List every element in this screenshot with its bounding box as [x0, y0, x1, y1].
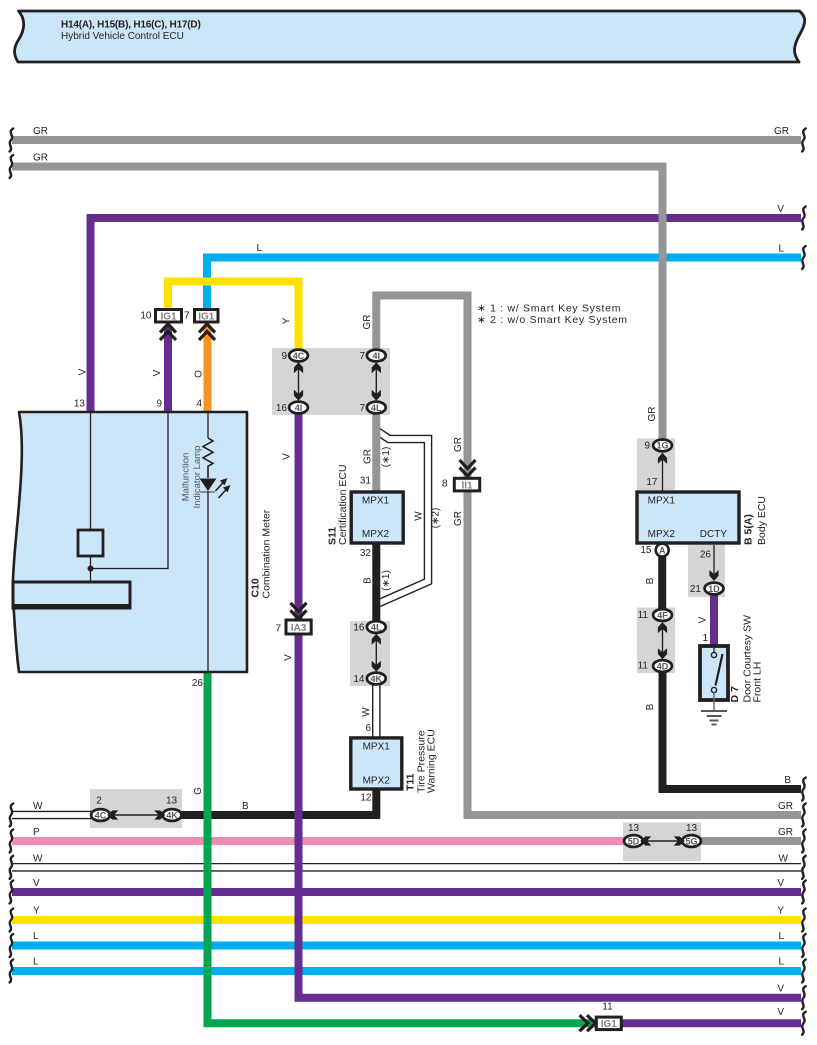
meter internal line pin 4 to resistor — [207, 412, 209, 438]
ground symbol — [701, 711, 727, 725]
double arrow 4C-4I — [298, 366, 300, 397]
connector oval 4C pin 2 bottom — [91, 809, 110, 821]
B5(A) body ECU box — [637, 492, 739, 543]
wire Y yellow IG1 to 4C — [168, 282, 299, 351]
connector oval 4C pin 9 — [289, 350, 308, 362]
connector shade block 4L/4K — [350, 621, 390, 686]
svg-text:B: B — [645, 577, 656, 584]
LED emission arrows — [216, 482, 225, 492]
svg-text:IG1: IG1 — [160, 311, 177, 322]
svg-text:7: 7 — [275, 624, 281, 635]
connector oval 4L pin 7 — [367, 402, 386, 414]
svg-text:H14(A), H15(B), H16(C), H17(D): H14(A), H15(B), H16(C), H17(D) — [61, 20, 201, 31]
svg-text:MPX2: MPX2 — [362, 529, 390, 540]
svg-text:MPX2: MPX2 — [648, 529, 676, 540]
svg-text:Body ECU: Body ECU — [756, 496, 768, 545]
svg-text:V: V — [698, 616, 709, 623]
svg-text:12: 12 — [360, 793, 372, 804]
wire B black S11 pin 32 to 4L — [372, 544, 380, 623]
svg-text:Malfunction: Malfunction — [181, 453, 192, 502]
wire GR gray 4I up over to II1 — [376, 296, 467, 479]
resistor malfunction indicator lamp — [203, 438, 213, 478]
svg-text:9: 9 — [281, 351, 287, 362]
svg-text:GR: GR — [453, 511, 464, 526]
wire G green meter pin 26 to bottom IG1 — [208, 672, 596, 1023]
svg-text:V: V — [282, 453, 293, 460]
svg-text:9: 9 — [156, 399, 162, 410]
svg-text:4K: 4K — [371, 674, 383, 684]
svg-text:8: 8 — [442, 479, 448, 490]
wire L blue to IG1 — [207, 258, 801, 309]
svg-text:1: 1 — [702, 633, 708, 644]
svg-text:V: V — [152, 369, 163, 376]
svg-text:GR: GR — [778, 827, 793, 838]
connector oval 4F pin 11 — [653, 609, 672, 621]
svg-text:L: L — [778, 244, 784, 255]
wire V purple 1D to door courtesy switch — [710, 593, 718, 646]
connector shade block 4C/4I 4I/4L — [272, 348, 390, 415]
svg-text:GR: GR — [647, 407, 658, 422]
svg-text:W: W — [361, 707, 372, 717]
svg-text:14: 14 — [353, 674, 365, 685]
connector oval 4I pin 16 — [289, 402, 308, 414]
connector IA3 box with chevrons — [291, 603, 307, 619]
svg-text:B: B — [784, 775, 791, 786]
svg-text:4C: 4C — [293, 351, 305, 361]
meter internal pin13 line — [90, 412, 92, 530]
double arrow 4I-4L — [375, 366, 377, 397]
svg-text:4: 4 — [196, 399, 202, 410]
body ECU DCTY pin 26 line with arrow to 1D — [713, 545, 715, 580]
svg-text:6: 6 — [365, 723, 371, 734]
connector shade block 1G — [637, 439, 675, 491]
connector IG1 box bottom with chevrons — [580, 1015, 596, 1031]
svg-text:2: 2 — [96, 796, 102, 807]
meter internal wire junction to pin 9 — [91, 412, 169, 569]
wire O orange IG1 to meter pin 4 — [204, 326, 212, 412]
svg-text:16: 16 — [276, 403, 288, 414]
svg-text:MPX1: MPX1 — [363, 742, 391, 753]
wire V purple 4I through IA3 to bottom bus — [299, 412, 802, 998]
svg-text:GR: GR — [774, 126, 789, 137]
svg-text:13: 13 — [166, 796, 178, 807]
connector IG1 box 1 with chevrons — [160, 324, 176, 340]
connector oval 5G pin 13 — [682, 835, 701, 847]
connector oval 5D pin 13 — [624, 835, 643, 847]
double arrow 5D-5G horizontal — [644, 840, 681, 842]
svg-text:26: 26 — [192, 678, 204, 689]
svg-text:26: 26 — [700, 550, 712, 561]
svg-text:(∗1): (∗1) — [381, 447, 392, 468]
connector oval 1G pin 9 — [653, 440, 672, 452]
double arrow 4L-4K — [375, 637, 377, 668]
body ECU pin 17 line with arrow from 1G — [662, 453, 664, 492]
meter internal gauge square — [78, 530, 103, 556]
wire W white 4K to T11 pin 6 — [372, 683, 381, 737]
svg-text:13: 13 — [686, 823, 698, 834]
svg-text:Combination Meter: Combination Meter — [261, 509, 273, 598]
svg-text:21: 21 — [690, 584, 702, 595]
LED malfunction indicator lamp — [200, 479, 217, 492]
double arrow 4F-4D — [662, 624, 664, 657]
connector oval 4I pin 7 — [367, 350, 386, 362]
svg-text:(∗2): (∗2) — [431, 508, 442, 529]
svg-text:IA3: IA3 — [291, 623, 307, 634]
svg-text:L: L — [257, 243, 263, 254]
svg-text:17: 17 — [646, 477, 658, 488]
svg-text:Hybrid Vehicle Control ECU: Hybrid Vehicle Control ECU — [61, 31, 184, 42]
svg-text:IG1: IG1 — [198, 311, 215, 322]
svg-text:V: V — [777, 984, 784, 995]
svg-text:15: 15 — [640, 545, 652, 556]
svg-text:1G: 1G — [656, 441, 668, 451]
svg-text:MPX1: MPX1 — [362, 495, 390, 506]
wire V purple top to meter pin 13 — [91, 218, 802, 412]
svg-text:MPX1: MPX1 — [648, 495, 676, 506]
svg-text:5G: 5G — [685, 836, 697, 846]
svg-text:V: V — [283, 654, 294, 661]
svg-text:D 7: D 7 — [729, 686, 741, 703]
wire W white bus 2 — [12, 863, 801, 872]
meter printed circuit bar — [13, 582, 130, 608]
svg-text:∗ 1 : w/ Smart Key System: ∗ 1 : w/ Smart Key System — [477, 303, 621, 315]
wire W white bus bottom left — [12, 811, 92, 820]
svg-text:7: 7 — [184, 311, 190, 322]
connector IG1 box 2 with chevrons — [199, 324, 215, 340]
svg-text:B: B — [242, 801, 249, 812]
svg-text:DCTY: DCTY — [700, 529, 728, 540]
svg-text:10: 10 — [140, 311, 152, 322]
svg-text:W: W — [779, 854, 789, 865]
svg-text:P: P — [33, 827, 40, 838]
svg-text:4D: 4D — [657, 661, 669, 671]
wire GR gray below II1 to right edge — [468, 492, 802, 815]
svg-text:Y: Y — [282, 317, 293, 324]
svg-text:L: L — [778, 931, 784, 942]
wire B black T11 pin 12 to 4K — [182, 790, 377, 815]
svg-text:V: V — [78, 368, 89, 375]
junction node — [88, 566, 94, 572]
switch blade and contacts — [713, 648, 715, 652]
T11 tire pressure warning ECU box — [351, 738, 402, 789]
connector shade block 4C/4K bottom — [90, 789, 182, 828]
svg-text:GR: GR — [33, 153, 48, 164]
svg-text:IG1: IG1 — [601, 1019, 618, 1030]
svg-text:7: 7 — [359, 351, 365, 362]
svg-text:B 5(A): B 5(A) — [743, 514, 755, 545]
svg-text:Y: Y — [33, 906, 40, 917]
meter internal line square to junction — [90, 556, 92, 582]
break squiggles left edge — [10, 129, 14, 152]
break squiggles right edge — [802, 129, 806, 152]
svg-text:(∗1): (∗1) — [381, 570, 392, 591]
connector shade block 5D/5G — [623, 823, 701, 862]
svg-text:7: 7 — [359, 403, 365, 414]
wire B black 4D to right edge — [663, 672, 802, 789]
double arrow 4C-4K horizontal — [111, 814, 161, 816]
connector oval 4K pin 13 bottom — [163, 809, 182, 821]
svg-text:Warning ECU: Warning ECU — [426, 729, 438, 793]
svg-text:4I: 4I — [295, 403, 303, 413]
wire V purple IG1 to meter pin 9 — [164, 326, 172, 412]
wire Y yellow bus — [12, 916, 801, 924]
wire GR gray 5G to right edge — [700, 837, 801, 845]
svg-text:W: W — [414, 511, 425, 521]
connector oval 4D pin 11 — [653, 660, 672, 672]
wire GR bus 1 top — [12, 136, 801, 144]
svg-text:Indicator Lamp: Indicator Lamp — [192, 446, 203, 509]
combination meter box C10 — [13, 412, 247, 672]
connector shade block 1D — [688, 544, 725, 597]
connector oval 4L pin 16 — [367, 621, 386, 633]
svg-text:II1: II1 — [461, 481, 473, 492]
svg-text:13: 13 — [628, 823, 640, 834]
connector shade block 4F/4D — [637, 608, 675, 674]
svg-text:GR: GR — [362, 315, 373, 330]
svg-text:W: W — [33, 854, 43, 865]
svg-text:GR: GR — [778, 801, 793, 812]
svg-text:V: V — [33, 878, 40, 889]
svg-text:V: V — [777, 878, 784, 889]
wire P pink bus to 5D — [12, 837, 625, 845]
banner plate Hybrid Vehicle Control ECU — [15, 11, 805, 62]
wire GR gray 4L to S11 pin 31 — [372, 412, 380, 491]
wire V purple bus — [12, 888, 801, 896]
svg-text:4F: 4F — [657, 610, 668, 620]
connector oval A pin 15 — [656, 544, 669, 557]
svg-text:32: 32 — [360, 548, 372, 559]
wire W white bypass band 4L to 4L — [377, 431, 428, 604]
svg-text:4L: 4L — [371, 403, 382, 413]
wire V purple from bottom IG1 to right edge — [622, 1019, 801, 1027]
wire L blue bus 2 — [12, 967, 801, 975]
svg-text:4C: 4C — [95, 810, 107, 820]
svg-text:11: 11 — [638, 610, 649, 621]
svg-text:11: 11 — [602, 1002, 613, 1013]
wire GR bus 2 to Body ECU 1G — [12, 167, 663, 440]
S11 certification ECU box — [351, 492, 403, 543]
svg-text:11: 11 — [638, 661, 649, 672]
svg-text:V: V — [777, 204, 784, 215]
wire L blue bus 1 — [12, 942, 801, 950]
svg-text:9: 9 — [644, 441, 650, 452]
svg-text:W: W — [33, 801, 43, 812]
svg-text:16: 16 — [353, 623, 365, 634]
svg-text:13: 13 — [74, 399, 86, 410]
svg-text:∗ 2 : w/o Smart Key System: ∗ 2 : w/o Smart Key System — [477, 314, 628, 326]
svg-text:4I: 4I — [373, 351, 381, 361]
connector oval 1D pin 21 — [705, 583, 724, 595]
wire B black Body ECU A to 4F — [658, 556, 666, 609]
svg-text:GR: GR — [453, 437, 464, 452]
connector oval 4K pin 14 — [367, 673, 386, 685]
svg-text:Certification ECU: Certification ECU — [337, 464, 349, 545]
svg-text:Front LH: Front LH — [752, 662, 764, 703]
meter internal line LED to pin 26 — [207, 491, 209, 672]
svg-text:L: L — [778, 957, 784, 968]
svg-text:4L: 4L — [371, 622, 382, 632]
svg-text:B: B — [645, 703, 656, 710]
svg-text:L: L — [33, 931, 39, 942]
svg-text:4K: 4K — [166, 810, 178, 820]
svg-text:G: G — [193, 787, 204, 795]
svg-text:GR: GR — [33, 126, 48, 137]
svg-text:V: V — [777, 1007, 784, 1018]
D7 door courtesy switch box — [700, 646, 728, 700]
svg-text:1D: 1D — [708, 584, 720, 594]
svg-text:L: L — [33, 957, 39, 968]
svg-text:B: B — [363, 577, 374, 584]
svg-text:31: 31 — [360, 476, 372, 487]
svg-text:O: O — [194, 370, 205, 378]
svg-text:Y: Y — [777, 906, 784, 917]
connector II1 box with chevrons — [460, 460, 476, 476]
svg-text:MPX2: MPX2 — [363, 776, 391, 787]
svg-text:GR: GR — [363, 449, 374, 464]
svg-text:A: A — [659, 545, 666, 555]
svg-text:5D: 5D — [628, 836, 640, 846]
